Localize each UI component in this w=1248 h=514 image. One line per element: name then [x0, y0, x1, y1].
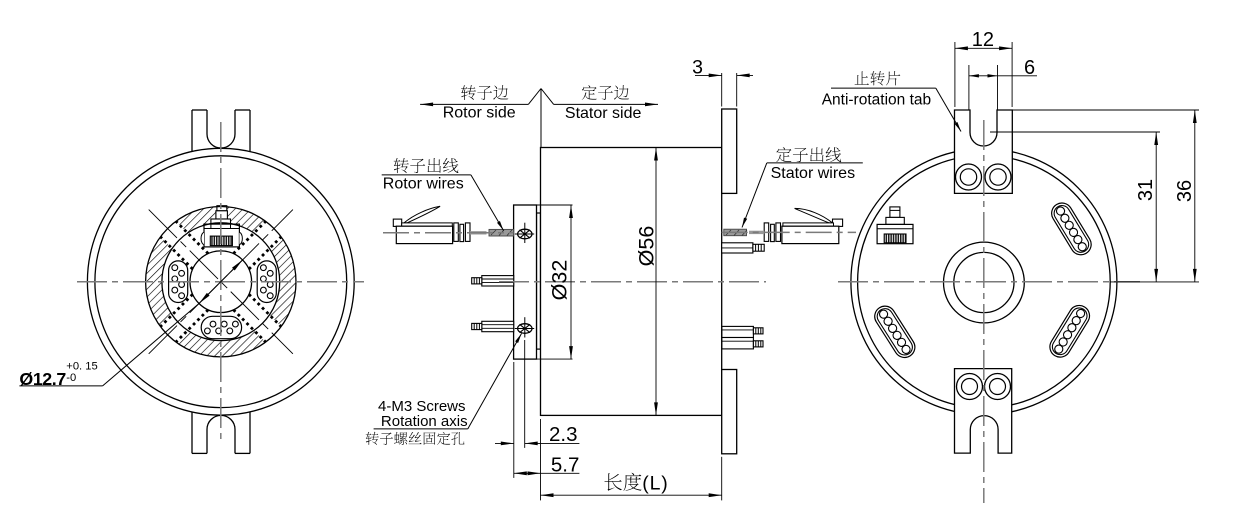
- svg-text:Stator wires: Stator wires: [771, 165, 855, 182]
- svg-text:Stator side: Stator side: [565, 105, 642, 122]
- svg-text:36: 36: [1174, 180, 1196, 202]
- svg-text:Rotor side: Rotor side: [443, 105, 516, 122]
- svg-text:Ø12.7: Ø12.7: [19, 369, 66, 389]
- svg-text:12: 12: [972, 29, 994, 51]
- svg-text:Ø32: Ø32: [548, 260, 572, 301]
- svg-text:+0. 15: +0. 15: [66, 361, 97, 373]
- svg-text:Anti-rotation tab: Anti-rotation tab: [822, 91, 931, 108]
- svg-text:Rotation axis: Rotation axis: [381, 413, 468, 430]
- svg-text:-0: -0: [66, 372, 76, 384]
- svg-text:5.7: 5.7: [551, 454, 580, 477]
- svg-text:(L): (L): [642, 472, 668, 494]
- svg-text:3: 3: [692, 56, 703, 78]
- svg-text:2.3: 2.3: [549, 423, 578, 446]
- svg-text:31: 31: [1135, 179, 1157, 201]
- svg-text:Ø56: Ø56: [635, 226, 659, 267]
- svg-text:6: 6: [1024, 57, 1035, 79]
- svg-text:Rotor wires: Rotor wires: [383, 175, 464, 192]
